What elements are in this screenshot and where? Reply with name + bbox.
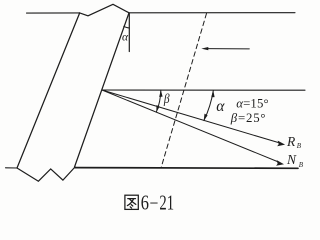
svg-text:α: α — [216, 98, 225, 115]
beta arc top arrowhead — [159, 90, 162, 97]
alpha angle arc — [204, 91, 213, 121]
beta angle arc — [156, 90, 161, 112]
svg-text:α=15°: α=15° — [236, 96, 269, 110]
top angle alpha arc — [124, 26, 130, 28]
vertical reference line at top — [128, 13, 130, 52]
bar left edge — [17, 13, 80, 168]
arrowhead of R — [277, 141, 285, 147]
svg-text:–: – — [150, 191, 158, 212]
left-pointing arrow shaft — [206, 48, 249, 50]
svg-text:B: B — [297, 142, 302, 150]
alpha arc top arrowhead — [211, 90, 214, 97]
bar right edge — [75, 13, 130, 167]
svg-text:β: β — [163, 91, 170, 106]
svg-text:α: α — [122, 32, 129, 44]
svg-text:B: B — [299, 161, 304, 169]
svg-text:β=25°: β=25° — [230, 111, 267, 125]
svg-text:R: R — [286, 134, 296, 149]
wire bottom wall line left segment — [6, 167, 18, 169]
dashed line parallel to bar — [161, 14, 207, 169]
svg-text:6: 6 — [141, 192, 149, 215]
wire top wall line left segment — [27, 12, 80, 14]
beta arc bottom arrowhead — [156, 105, 159, 112]
normal N line — [102, 90, 279, 162]
alpha arc bottom arrowhead — [204, 114, 208, 121]
wire top wall line right segment — [129, 12, 295, 14]
wire middle horizontal reference line — [102, 89, 305, 91]
bar top break zigzag — [80, 4, 129, 16]
wire bottom wall line right segment — [75, 167, 298, 170]
bar bottom break zigzag — [17, 167, 75, 181]
svg-text:21: 21 — [159, 191, 174, 214]
left-pointing arrowhead — [201, 47, 208, 50]
svg-text:N: N — [286, 152, 297, 167]
reaction R line — [102, 90, 280, 143]
caption Chinese character tu (drawn) — [125, 195, 138, 209]
arrowhead of N — [276, 160, 284, 166]
